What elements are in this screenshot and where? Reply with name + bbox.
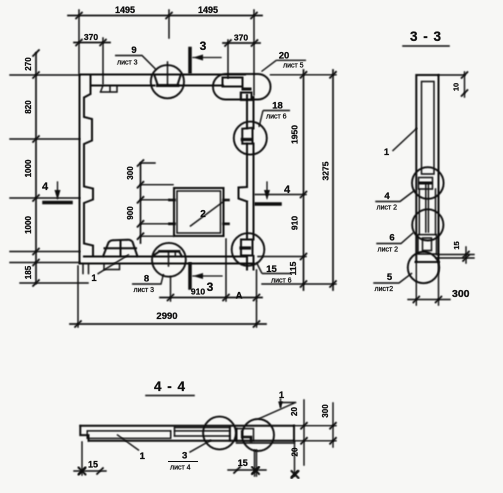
svg-text:15: 15 [266, 264, 277, 275]
SECTION 4-4 [154, 379, 186, 394]
svg-text:20: 20 [279, 51, 290, 62]
svg-text:370: 370 [234, 33, 248, 43]
detail circle 9 [151, 65, 184, 98]
dim 2990 line [70, 323, 266, 325]
svg-text:1: 1 [140, 451, 146, 462]
3-3 leaders [374, 129, 417, 284]
square dim line [140, 163, 142, 243]
square dim extensions [141, 163, 174, 236]
callout labels plan [98, 56, 307, 285]
svg-text:лист2: лист2 [375, 286, 394, 293]
wall right inner face [246, 95, 248, 270]
4-4 leader 3 [190, 441, 211, 453]
4-4 leader 1 left [118, 435, 139, 450]
svg-text:300: 300 [321, 404, 330, 418]
corner stadium callout 20 [213, 74, 271, 100]
4-4 panel top face [80, 425, 294, 427]
4-4 recess box [87, 431, 171, 438]
svg-text:15: 15 [88, 460, 98, 470]
svg-text:1: 1 [91, 273, 97, 284]
right dim line 3275 [332, 70, 334, 290]
svg-text:лист 2: лист 2 [378, 247, 399, 254]
top-left tab [101, 86, 118, 93]
shaft item 2 outer [174, 188, 224, 236]
2990 extensions [78, 266, 257, 327]
svg-text:910: 910 [191, 287, 205, 297]
3-3 panel inner [422, 82, 435, 175]
svg-text:20: 20 [290, 407, 299, 416]
4-4 ticks [79, 468, 103, 474]
plan texts [24, 5, 331, 322]
bottom-left corner stubs [83, 264, 89, 274]
4-4 dim 15 left [74, 442, 106, 475]
right wall key tab [239, 187, 248, 202]
callout 18 leader [259, 111, 290, 128]
svg-text:лист 3: лист 3 [134, 287, 155, 294]
svg-text:300: 300 [452, 288, 470, 300]
corner joint keys [223, 78, 243, 90]
svg-text:15: 15 [238, 458, 248, 468]
svg-text:270: 270 [24, 57, 33, 71]
bottom dim extensions [171, 239, 257, 301]
3-3 detail circle 6 [412, 209, 443, 240]
3-3 detail circle 4 [412, 167, 444, 199]
svg-text:5: 5 [387, 272, 393, 283]
joint 18 box [242, 128, 252, 144]
4-4 joint box [237, 429, 254, 441]
section mark 4 right [266, 182, 268, 198]
svg-text:1495: 1495 [198, 5, 218, 15]
dome item 1 [103, 240, 138, 257]
section mark 3 bottom [188, 264, 192, 288]
svg-text:3 - 3: 3 - 3 [410, 29, 442, 44]
svg-text:2: 2 [200, 209, 206, 220]
shaft corner lugs [170, 200, 229, 224]
left dim column line [35, 53, 37, 284]
4-4 dim 15 right [228, 450, 266, 476]
4-4 leader 1 right [260, 399, 296, 419]
svg-text:лист 3: лист 3 [117, 60, 138, 67]
top dim extension lines [79, 10, 254, 95]
3-3 dim 10 lines [439, 72, 466, 97]
svg-text:18: 18 [272, 101, 283, 112]
3-3 dim 300 [408, 262, 450, 305]
svg-text:лист 6: лист 6 [266, 114, 287, 121]
dim ticks [33, 13, 336, 328]
svg-text:1950: 1950 [290, 125, 300, 144]
callout 20 leader [262, 60, 307, 71]
4-4 right end [293, 426, 295, 441]
wall left outer face [79, 75, 81, 264]
svg-text:лист 6: лист 6 [271, 278, 292, 285]
wall top outer face [80, 74, 246, 76]
3-3 lower strip [419, 189, 435, 235]
svg-text:4: 4 [384, 191, 390, 202]
4-4 detail circle A [203, 417, 236, 450]
svg-text:1: 1 [384, 147, 390, 158]
svg-text:лист 5: лист 5 [283, 63, 304, 70]
SECTION 3-3 [410, 29, 442, 44]
callout 8 leader [132, 274, 164, 284]
3-3 ticks [462, 72, 468, 96]
wall left inner profile with keys [84, 75, 93, 257]
4-4 joint hook [242, 431, 251, 441]
svg-text:3: 3 [200, 39, 207, 53]
3-3 panel outer [416, 75, 440, 262]
left extension lines [10, 75, 88, 283]
3-3 dim 15 lines [437, 247, 475, 263]
right extensions [255, 75, 336, 284]
svg-text:9: 9 [131, 45, 136, 56]
svg-text:1000: 1000 [24, 216, 33, 234]
svg-text:2990: 2990 [156, 311, 177, 322]
detail circle 18 [234, 122, 267, 155]
leader item 2 [191, 200, 226, 226]
section mark 3 top [188, 49, 192, 73]
svg-text:4: 4 [42, 181, 49, 193]
callout 15 leader [257, 263, 292, 274]
wall right outer face [253, 97, 255, 270]
detail circle 8 [152, 243, 186, 277]
svg-text:6: 6 [389, 233, 394, 244]
svg-text:300: 300 [126, 166, 135, 180]
joint 8 trapezoid [160, 250, 180, 253]
3-3 detail circle 5 [408, 252, 439, 283]
svg-text:20: 20 [291, 447, 300, 456]
3-3 joint 6 box [418, 235, 437, 254]
svg-text:900: 900 [126, 206, 135, 220]
4-4 left end [80, 426, 88, 441]
svg-text:3: 3 [207, 280, 214, 294]
4-4 right end dims [294, 400, 336, 476]
svg-text:3: 3 [182, 451, 187, 462]
svg-text:лист 4: лист 4 [170, 465, 191, 472]
svg-text:8: 8 [144, 274, 149, 285]
wall top inner face segments [91, 85, 224, 87]
dim 370 left line [74, 42, 110, 44]
joint 15 box [241, 240, 253, 256]
wall bottom outer face [80, 263, 255, 265]
dome divisions [105, 240, 137, 257]
svg-text:1000: 1000 [24, 159, 33, 177]
shaft item 2 inner [177, 191, 221, 233]
4-4 panel bottom face [89, 440, 295, 442]
4-4 leader arrowhead [278, 402, 283, 409]
section marks [44, 49, 280, 289]
4-4 joint step [171, 428, 175, 437]
4-4 joint verticals [230, 426, 237, 441]
svg-text:820: 820 [24, 100, 33, 114]
svg-text:185: 185 [24, 265, 33, 279]
svg-text:370: 370 [84, 32, 98, 42]
svg-text:A: A [236, 291, 243, 302]
svg-text:4: 4 [284, 184, 291, 196]
svg-text:15: 15 [452, 241, 461, 249]
svg-text:3275: 3275 [321, 161, 331, 180]
svg-text:910: 910 [290, 216, 300, 230]
svg-text:лист 2: лист 2 [377, 205, 398, 212]
svg-text:1: 1 [279, 390, 285, 401]
wall bottom top face [84, 256, 247, 258]
right dim line 1950-910-115 [303, 70, 305, 290]
3-3 title underline [403, 45, 449, 47]
4-4 bold x ticks [79, 468, 86, 475]
top dim line 1495+1495 [68, 15, 262, 17]
bottom tab under dome [104, 264, 120, 270]
bottom dim 910-A line [160, 297, 262, 299]
detail circle 15 [232, 233, 265, 266]
joint 9 centerline [167, 62, 169, 85]
joint 9 trapezoid [155, 76, 181, 86]
4-4 detail circle B [242, 419, 274, 451]
3-3 joint 4 box [419, 178, 433, 190]
4-4 middle band lines [175, 428, 231, 437]
dim 370 right line [223, 42, 260, 44]
section mark 4 left [57, 182, 59, 198]
svg-text:4 - 4: 4 - 4 [154, 379, 186, 394]
callout 9 leader [115, 56, 156, 70]
callout 1 leader [98, 255, 130, 275]
4-4 title underline [146, 395, 194, 397]
svg-text:1495: 1495 [115, 5, 135, 15]
svg-text:10: 10 [452, 83, 461, 91]
3-3 middle slot [426, 184, 429, 232]
right small tab below corner [241, 93, 248, 100]
